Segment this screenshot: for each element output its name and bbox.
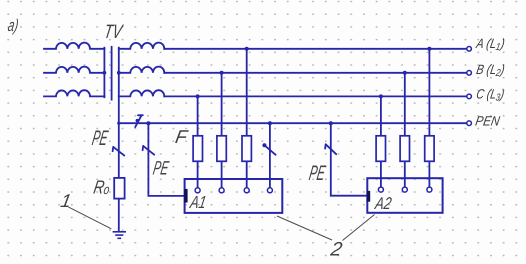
svg-text:C (L3): C (L3) bbox=[475, 87, 506, 104]
svg-text:PEN: PEN bbox=[474, 113, 501, 128]
svg-text:B (L2): B (L2) bbox=[475, 62, 506, 79]
svg-text:A (L1): A (L1) bbox=[474, 36, 506, 53]
